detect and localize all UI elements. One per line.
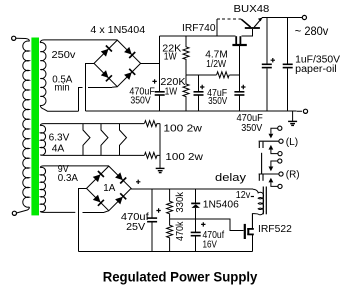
resistor R1 22K 1W (162, 36, 189, 75)
wire 6.3V bottom lead (40, 154, 144, 157)
wire C4 vertical (266, 18, 268, 112)
svg-text:330k: 330k (174, 191, 186, 212)
primary terminal top (12, 36, 16, 40)
resistor R4 100 2w top (144, 121, 202, 135)
diode D2 top-right (124, 47, 135, 58)
terminal R top (278, 159, 282, 163)
capacitor C7 470uf 16V (191, 219, 224, 251)
arrow up (269, 145, 274, 150)
diode D7 bottom-left (93, 195, 104, 206)
svg-text:BUX48: BUX48 (234, 3, 270, 15)
svg-text:1/2W: 1/2W (206, 58, 226, 70)
capacitor C2 47uF 350V (194, 75, 228, 111)
relay K1 core (263, 187, 266, 215)
bridge rectifier B1 diamond (94, 40, 141, 87)
diode D5 top-left (93, 171, 104, 182)
wire heater return vertical (159, 124, 161, 169)
terminal L top (278, 126, 282, 130)
svg-text:(L): (L) (286, 136, 298, 148)
arrow down (269, 167, 274, 172)
terminal output plus (302, 15, 306, 19)
diode D6 top-right (115, 172, 126, 183)
wire (17, 207, 30, 213)
resistor R2 220K 1W (160, 75, 189, 111)
mosfet U2 IRF522 (244, 214, 292, 252)
terminal L mid (279, 139, 283, 143)
svg-text:470k: 470k (174, 221, 186, 241)
heater load 2 (101, 124, 108, 156)
svg-text:paper-oil: paper-oil (295, 64, 337, 75)
arrow up (269, 178, 274, 183)
resistor R5 100 2w bottom (144, 151, 203, 163)
transformer T1 core (31, 38, 39, 216)
capacitor C3 on IRF740 source (234, 46, 245, 111)
svg-text:4A: 4A (52, 142, 65, 154)
svg-text:0.3A: 0.3A (58, 172, 78, 184)
wire hop end diagonal 9V (104, 211, 109, 213)
diode D4 bottom-right (124, 69, 135, 80)
wire (16, 38, 30, 41)
svg-text:1W: 1W (165, 85, 178, 97)
wire contact link (261, 153, 263, 174)
wire 250v bottom lead (40, 105, 78, 111)
ground HV (288, 111, 297, 125)
terminal R mid (279, 172, 283, 176)
contact bar R (259, 173, 279, 175)
wire to bottom terminal (297, 110, 302, 112)
wire output top rail (262, 17, 302, 19)
wire 9V top lead (40, 166, 109, 168)
wire 9V bottom lead (40, 211, 75, 212)
svg-text:1N5406: 1N5406 (203, 198, 239, 210)
wire 6.3V top lead (40, 124, 144, 126)
wire HV bottom rail (86, 110, 297, 112)
svg-text:delay: delay (215, 172, 247, 184)
wire bridge plus to C1 (141, 62, 160, 64)
transistor Q1 BUX48 (234, 3, 270, 29)
svg-text:350V: 350V (208, 95, 227, 107)
terminal output minus (303, 109, 307, 113)
svg-text:IRF522: IRF522 (258, 223, 292, 235)
diode D3 bottom-left (101, 70, 112, 81)
svg-text:1W: 1W (164, 51, 177, 63)
diode D9 1N5406 (191, 189, 239, 219)
terminal L bottom (278, 152, 282, 156)
capacitor C6 470uf 25V (121, 189, 161, 251)
capacitor C1 470uF 350V (129, 79, 164, 106)
wire LV mid rail (170, 219, 244, 231)
wire node line (186, 74, 239, 76)
svg-text:16V: 16V (203, 238, 217, 250)
wire IRF740 drain to BUX48 base (241, 29, 252, 36)
heater load 3 (120, 124, 127, 156)
diode D8 bottom-right (115, 193, 126, 204)
resistor R3 4.7M 1/2W (205, 49, 229, 78)
svg-text:~ 280v: ~ 280v (295, 24, 329, 38)
svg-text:25V: 25V (126, 221, 145, 233)
wire C5 vertical (287, 18, 289, 112)
primary terminal bottom (12, 211, 16, 215)
terminal R bottom (278, 184, 282, 188)
wire 12v pointer (251, 196, 254, 198)
ground 6.3V (156, 168, 165, 172)
wire HV gate rail (160, 35, 236, 37)
mosfet U1 IRF740 (182, 22, 247, 46)
wire hop to bridge bottom vertex (88, 86, 112, 88)
resistor R6 330k (167, 189, 186, 219)
wire B2 plus rail (131, 187, 253, 190)
secondary 9V winding (40, 167, 45, 211)
wire B2 minus rail (79, 188, 87, 251)
wire gate feedback vertical (216, 19, 218, 36)
wire (271, 182, 278, 186)
svg-text:100 2w: 100 2w (163, 123, 202, 135)
resistor R7 470k (167, 219, 186, 251)
svg-text:350V: 350V (241, 122, 262, 134)
wire 250v top lead (40, 40, 117, 43)
wire 250v-bottom riser with hop (79, 87, 83, 111)
diode D1 top-left (101, 46, 112, 57)
wire hop end diagonal (112, 86, 117, 89)
capacitor C5 1uF 350V paper-oil (283, 54, 341, 75)
capacitor C4 470uF 350V output (237, 58, 276, 134)
svg-text:4 x 1N5404: 4 x 1N5404 (90, 24, 145, 36)
relay contact L group (259, 126, 299, 156)
secondary 250v winding (40, 43, 46, 106)
contact bar L (259, 140, 279, 142)
svg-text:100 2w: 100 2w (165, 151, 203, 163)
svg-text:IRF740: IRF740 (182, 22, 216, 34)
bridge rectifier B2 1A (87, 166, 132, 211)
wire bridge minus to bottom rail (86, 63, 95, 111)
arrow down (269, 134, 274, 139)
svg-text:Regulated Power Supply: Regulated Power Supply (103, 269, 258, 285)
wire dashed link (217, 18, 241, 20)
wire LV bottom rail (79, 250, 253, 252)
wire hop 9V bottom (82, 211, 104, 213)
svg-text:350V: 350V (130, 94, 150, 106)
svg-text:12v: 12v (236, 189, 251, 201)
relay K1 coil (252, 189, 263, 228)
transformer primary winding (23, 41, 30, 207)
svg-text:(R): (R) (286, 168, 300, 180)
svg-text:250v: 250v (52, 49, 77, 61)
svg-text:min: min (54, 82, 69, 94)
wire (271, 161, 278, 167)
relay contact R group (259, 159, 300, 189)
heater load 1 (83, 124, 90, 156)
wire C1 vertical (159, 36, 161, 111)
wire (271, 150, 278, 154)
node plus label (136, 180, 140, 184)
secondary 6.3V winding (40, 125, 45, 155)
svg-text:1A: 1A (103, 182, 115, 194)
wire (271, 128, 278, 134)
